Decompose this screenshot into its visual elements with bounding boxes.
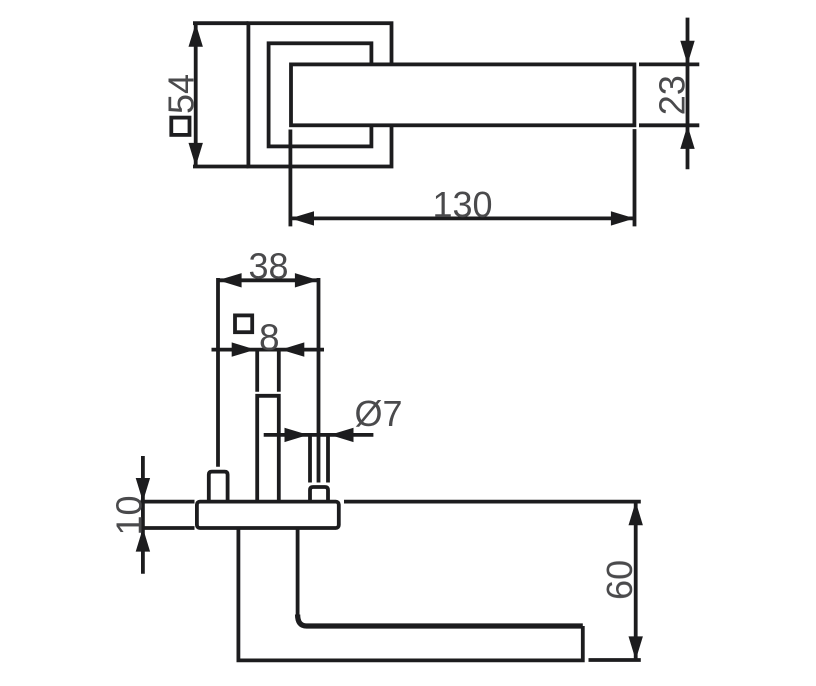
dim 54 arrow up [189, 23, 203, 47]
dim 54 arrow down [189, 143, 203, 167]
spindle (side view) [257, 396, 279, 502]
rose outer square (front view) [248, 23, 391, 166]
dim 10: top extension line [141, 500, 195, 504]
dim 130: dimension line [290, 216, 634, 220]
dim 38 arrow left [218, 273, 242, 287]
dim 23: bottom extension line [639, 123, 699, 127]
dim 7 arrow pointing left [330, 428, 354, 442]
svg-text:54: 54 [160, 74, 201, 114]
dim 10 arrow down (top) [136, 478, 150, 502]
dim 8: left extension line [255, 348, 259, 392]
dim 130: left extension line [288, 130, 292, 227]
screw shank right line [326, 435, 330, 483]
svg-text:8: 8 [259, 317, 280, 358]
dim 60: dimension line [634, 502, 638, 660]
dim 38: left extension line [216, 278, 220, 467]
dim 8 arrow pointing left [281, 342, 305, 356]
svg-text:Ø7: Ø7 [355, 393, 403, 434]
rose plate (side view) [197, 502, 339, 528]
dim 130: right extension line [633, 129, 637, 226]
dim 10 arrow up (bottom) [136, 528, 150, 552]
dim 54: dimension line [194, 23, 198, 166]
dim 54: bottom extension line [193, 165, 248, 169]
square symbol for 8 [235, 315, 252, 332]
handle bar (front view) [291, 64, 634, 125]
rose inner square (front view) [269, 43, 372, 146]
dim 60 arrow down (bottom) [629, 636, 643, 660]
dim 23 arrow up (bottom) [680, 125, 694, 149]
screw shank left line [308, 435, 312, 483]
dim 38 arrow right [295, 273, 319, 287]
right screw head [310, 487, 328, 502]
handle neck and grip outer profile (side view) [238, 528, 582, 660]
left screw head [209, 472, 228, 502]
dim 130 arrow left [290, 211, 314, 225]
svg-text:130: 130 [432, 184, 492, 225]
dim 23 arrow down (top) [680, 41, 694, 65]
dim 130 arrow right [611, 211, 635, 225]
dim 10: dimension line [141, 456, 145, 574]
dim 8: right extension line [277, 348, 281, 392]
dim 60 arrow up (top) [629, 502, 643, 526]
dim 38: right extension line [317, 278, 321, 483]
square symbol for 54 [171, 118, 189, 135]
grip top edge (thick) [298, 615, 583, 627]
dim 10: bottom extension line [141, 526, 195, 530]
dim 23: top extension line [639, 63, 699, 67]
dim 54: top extension line [193, 21, 248, 25]
dim 60: bottom extension line [589, 658, 641, 662]
svg-text:60: 60 [599, 560, 640, 600]
svg-text:38: 38 [248, 245, 288, 286]
handle neck inner edge [296, 528, 300, 616]
dim 38: dimension line [218, 278, 319, 282]
dim 7 arrow pointing right [285, 428, 309, 442]
dim 7: dimension line [264, 433, 374, 437]
svg-text:10: 10 [109, 495, 150, 535]
dim 60: top extension line [344, 500, 641, 504]
dim 23: dimension line [686, 18, 690, 170]
svg-text:23: 23 [652, 75, 693, 115]
dim 8: dimension line [212, 348, 325, 352]
dim 8 arrow pointing right [232, 342, 256, 356]
